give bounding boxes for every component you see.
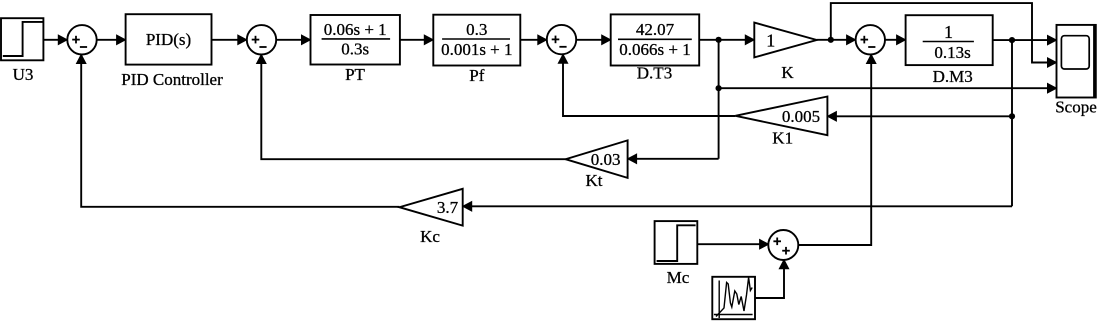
svg-text:0.001s + 1: 0.001s + 1 xyxy=(441,40,512,59)
svg-text:K: K xyxy=(781,63,794,82)
svg-text:42.07: 42.07 xyxy=(636,20,675,39)
svg-text:D.M3: D.M3 xyxy=(933,67,973,86)
svg-text:Scope: Scope xyxy=(1055,98,1097,117)
svg-text:0.005: 0.005 xyxy=(782,107,820,126)
svg-text:Pf: Pf xyxy=(469,66,484,85)
svg-text:1: 1 xyxy=(944,22,953,42)
svg-text:K1: K1 xyxy=(772,129,793,148)
svg-text:0.066s + 1: 0.066s + 1 xyxy=(619,40,690,59)
svg-text:3.7: 3.7 xyxy=(437,198,459,217)
svg-text:D.T3: D.T3 xyxy=(637,64,672,83)
svg-text:0.03: 0.03 xyxy=(591,150,621,169)
svg-text:U3: U3 xyxy=(13,65,34,84)
svg-text:0.06s + 1: 0.06s + 1 xyxy=(324,20,387,39)
svg-text:1: 1 xyxy=(766,30,775,50)
svg-text:PT: PT xyxy=(345,65,365,84)
svg-text:0.3: 0.3 xyxy=(466,20,487,39)
svg-text:PID(s): PID(s) xyxy=(146,30,191,49)
svg-text:Mc: Mc xyxy=(667,268,690,287)
svg-text:0.3s: 0.3s xyxy=(341,40,369,59)
svg-text:0.13s: 0.13s xyxy=(934,43,970,62)
svg-text:PID Controller: PID Controller xyxy=(121,70,223,89)
svg-text:Kc: Kc xyxy=(420,227,440,246)
svg-text:Kt: Kt xyxy=(586,171,603,190)
